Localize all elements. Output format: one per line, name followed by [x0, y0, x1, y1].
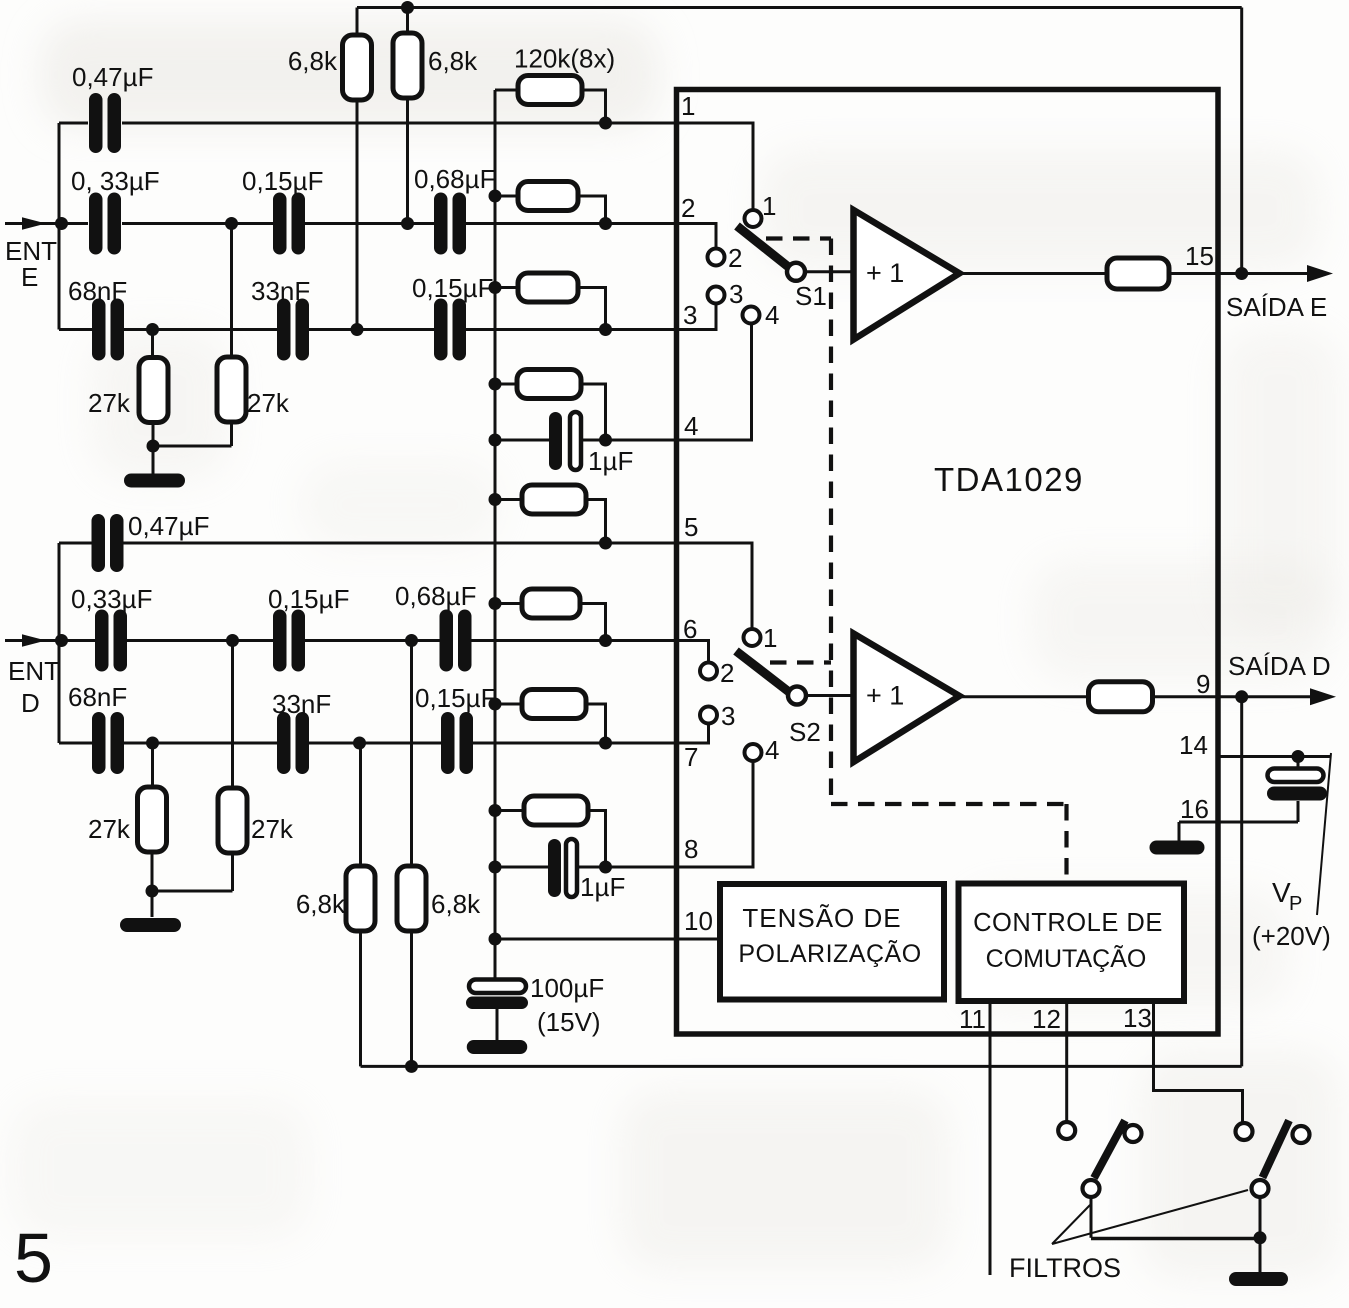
svg-text:0,15µF: 0,15µF — [242, 166, 323, 196]
wire pin-7 to S2 contact 3 — [677, 725, 709, 744]
label 100uF — [530, 973, 604, 1003]
resistor 120k row8 — [489, 796, 606, 867]
svg-text:5: 5 — [14, 1219, 53, 1297]
svg-text:4: 4 — [765, 300, 779, 330]
figure number 5 — [14, 1219, 53, 1297]
wire op-amp E output — [958, 272, 1107, 275]
svg-text:12: 12 — [1032, 1004, 1061, 1034]
wire left vertical E (pin1 to pin3) — [58, 123, 61, 330]
S1 contact 3 label — [729, 279, 743, 309]
svg-text:(15V): (15V) — [537, 1007, 601, 1037]
S2 contact 4 label — [765, 735, 779, 765]
svg-text:1: 1 — [681, 91, 695, 121]
dashed control bus vertical — [829, 239, 833, 805]
S2 contact 1 — [744, 629, 761, 646]
label ENT E — [5, 236, 57, 292]
node SAIDA E junction — [1235, 267, 1248, 280]
pin label 9 — [1196, 669, 1210, 699]
node 6,8k/pin3 junction — [351, 323, 364, 336]
label 0,15uF (D second) — [415, 683, 496, 713]
wire ground stem E — [152, 446, 155, 474]
pin label 15 — [1185, 241, 1214, 271]
node ENT D junction — [55, 634, 68, 647]
wire pin-12 — [1065, 1001, 1068, 1122]
label 6,8k (top left) — [288, 46, 338, 76]
svg-text:100µF: 100µF — [530, 973, 604, 1003]
svg-text:0,15µF: 0,15µF — [268, 584, 349, 614]
filter switch left pivot — [1083, 1180, 1100, 1197]
node ground junction E — [147, 440, 160, 453]
svg-text:7: 7 — [684, 742, 698, 772]
wire 6,8k R3 bottom lead — [356, 100, 359, 330]
capacitor 68nF (E) — [92, 299, 124, 361]
wire pin-1 to S1 contact 1 — [677, 123, 754, 210]
wire pin-9 to SAIDA D — [1153, 695, 1311, 698]
pin label 16 — [1180, 794, 1209, 824]
node 6,8k/pin7 junction D — [353, 737, 366, 750]
svg-text:11: 11 — [959, 1004, 986, 1034]
label TDA1029 — [934, 461, 1084, 498]
capacitor 0,47uF (E) — [89, 93, 121, 153]
S1 contact 2 label — [728, 243, 742, 273]
dashed control bus horizontal — [831, 802, 1067, 806]
svg-text:4: 4 — [684, 411, 698, 441]
svg-text:4: 4 — [765, 735, 779, 765]
capacitor 0,33uF (D) — [95, 610, 127, 672]
label 68nF (D) — [68, 682, 127, 712]
S1 blade — [737, 226, 791, 269]
resistor 27k (D right) — [218, 788, 247, 853]
label 33nF (D) — [272, 689, 331, 719]
wire 27k bottoms to ground E — [153, 420, 232, 446]
S1 contact 4 — [743, 307, 760, 324]
ENT E input arrow — [22, 217, 46, 229]
S1 contact 4 label — [765, 300, 779, 330]
capacitor 0,68uF (D) — [440, 610, 472, 672]
wire S1 common to op-amp — [805, 270, 853, 273]
svg-text:0,15µF: 0,15µF — [412, 273, 493, 303]
S1 contact 1 — [745, 210, 762, 227]
svg-text:2: 2 — [720, 658, 734, 688]
wire 6,8k R4 top lead — [406, 8, 409, 34]
node filter ground junction — [1254, 1231, 1267, 1244]
label (+20V) — [1252, 921, 1331, 951]
wire pin-16 ground stem — [1178, 822, 1181, 841]
capacitor 0,33uF (E) — [89, 193, 121, 255]
node SAIDA D junction — [1235, 690, 1248, 703]
svg-text:6,8k: 6,8k — [288, 46, 338, 76]
capacitor 33nF (E) — [277, 299, 309, 361]
svg-text:13: 13 — [1123, 1003, 1152, 1033]
wire 27k R5D top lead — [151, 743, 154, 787]
resistor output D (pin 9) — [1089, 682, 1153, 712]
node 6,8k/pin2 junction — [401, 217, 414, 230]
label S1 — [795, 281, 827, 311]
label 27k (E left) — [88, 388, 131, 418]
pin label 6 — [683, 614, 697, 644]
resistor 120k row1 — [495, 76, 606, 124]
node row2/pin junction — [599, 217, 612, 230]
node 68nF/27k junction E — [146, 323, 159, 336]
wire S2 common to op-amp — [806, 694, 853, 697]
wire ground stem D — [151, 891, 154, 917]
pin label 3 — [683, 300, 697, 330]
svg-text:0,33µF: 0,33µF — [71, 584, 152, 614]
node 6,8k/pin6 junction D — [405, 634, 418, 647]
capacitor 0,15uF (D second) — [441, 712, 473, 774]
S2 contact 1 label — [763, 623, 777, 653]
wire pin-2 net (ENT E line, y=223.5) — [122, 222, 677, 225]
svg-text:1µF: 1µF — [588, 446, 633, 476]
S1 common contact — [787, 263, 805, 281]
wire pin-4 to S1 contact 4 — [677, 325, 752, 441]
label 33nF (E) — [251, 276, 310, 306]
svg-text:14: 14 — [1179, 730, 1208, 760]
label 27k (D left) — [88, 814, 131, 844]
node 68nF/27k junction D — [146, 737, 159, 750]
svg-text:TDA1029: TDA1029 — [934, 461, 1084, 498]
wire pin-8 to S2 contact 4 — [677, 762, 754, 867]
pin label 10 — [684, 906, 713, 936]
svg-text:(+20V): (+20V) — [1252, 921, 1331, 951]
svg-text:0,15µF: 0,15µF — [415, 683, 496, 713]
label 6,8k (bottom left) — [296, 889, 346, 919]
wire pin-10 net (y=939) — [495, 938, 720, 941]
node row8/pin junction — [599, 861, 612, 874]
wire 27k bottoms to ground D — [152, 852, 233, 891]
svg-text:0,68µF: 0,68µF — [414, 164, 495, 194]
node 33uF/27k junction E — [225, 217, 238, 230]
resistor 120k row4 — [489, 370, 606, 441]
wire filter common — [1091, 1237, 1260, 1241]
capacitor 1uF (E, polarized) — [549, 412, 581, 470]
svg-text:CONTROLE DE: CONTROLE DE — [973, 909, 1163, 937]
resistor output E (pin 15) — [1107, 258, 1169, 289]
S2 blade — [736, 651, 791, 694]
pin label 5 — [684, 512, 698, 542]
svg-text:S1: S1 — [795, 281, 827, 311]
label SAIDA E — [1226, 292, 1327, 322]
label S2 — [789, 717, 821, 747]
S1 contact 1 label — [762, 191, 776, 221]
node row1/pin junction — [599, 117, 612, 130]
ground symbol E — [124, 474, 185, 488]
wire 6,8k R7 bottom lead — [359, 931, 362, 1066]
pin label 1 — [681, 91, 695, 121]
label 0,15uF (D first) — [268, 584, 349, 614]
capacitor 0,15uF (D first) — [273, 610, 305, 672]
svg-text:3: 3 — [729, 279, 743, 309]
node ENT E junction — [55, 217, 68, 230]
svg-text:27k: 27k — [247, 388, 290, 418]
Vp pointer line — [1317, 753, 1331, 915]
resistor 120k row7 — [489, 690, 606, 744]
label 1uF (E) — [588, 446, 633, 476]
svg-text:POLARIZAÇÃO: POLARIZAÇÃO — [738, 939, 921, 968]
svg-text:68nF: 68nF — [68, 276, 127, 306]
node row5/pin junction — [599, 537, 612, 550]
dashed control link S1 — [766, 236, 831, 240]
pin label 11 — [959, 1004, 986, 1034]
label 1uF (D) — [580, 872, 625, 902]
label 0,68uF (D) — [395, 581, 476, 611]
wire 27k R1E top lead — [151, 330, 154, 361]
resistor 6,8k (bottom right) — [397, 866, 426, 931]
label ENT D — [8, 656, 60, 718]
wire ladder bus vertical — [494, 90, 497, 980]
wire pin-11 — [989, 1001, 992, 1275]
ground symbol 100uF — [467, 1040, 528, 1054]
S2 common contact — [788, 687, 806, 705]
wire ENT D input lead — [5, 639, 96, 642]
node ground junction D — [146, 885, 159, 898]
wire filter ground stem — [1259, 1238, 1262, 1272]
svg-text:10: 10 — [684, 906, 713, 936]
capacitor 1uF (D, polarized) — [548, 839, 577, 897]
svg-text:9: 9 — [1196, 669, 1210, 699]
resistor 120k row3 — [489, 273, 606, 330]
svg-text:1: 1 — [762, 191, 776, 221]
resistor 27k (E right) — [217, 357, 246, 422]
capacitor 0,15uF (E first) — [273, 193, 305, 255]
wire 6,8k R8 top lead — [410, 641, 413, 867]
label 0,33uF (E) — [71, 166, 160, 196]
label SAIDA D — [1228, 651, 1331, 681]
wire op-amp D output — [958, 695, 1089, 698]
svg-text:3: 3 — [721, 701, 735, 731]
svg-text:P: P — [1289, 893, 1302, 915]
label FILTROS — [1009, 1253, 1121, 1283]
svg-text:0,47µF: 0,47µF — [72, 62, 153, 92]
svg-text:SAÍDA D: SAÍDA D — [1228, 651, 1331, 681]
resistor 120k row5 — [489, 485, 606, 543]
svg-text:TENSÃO DE: TENSÃO DE — [742, 903, 901, 933]
svg-text:+ 1: + 1 — [866, 258, 904, 288]
wire pin-5 net (0,47uF D line, y=543) — [59, 542, 677, 545]
ENT D input arrow — [22, 634, 46, 646]
wire bottom feedback rail — [361, 1065, 1242, 1068]
wire pin-1 net (0,47uF line, y=123) — [59, 122, 677, 125]
label Vp — [1272, 877, 1302, 915]
svg-text:1µF: 1µF — [580, 872, 625, 902]
svg-text:5: 5 — [684, 512, 698, 542]
svg-text:27k: 27k — [251, 814, 294, 844]
S2 contact 3 label — [721, 701, 735, 731]
svg-text:0, 33µF: 0, 33µF — [71, 166, 160, 196]
wire right feedback vertical (SAIDA D) — [1240, 697, 1243, 1067]
svg-text:COMUTAÇÃO: COMUTAÇÃO — [986, 944, 1147, 973]
FILTROS pointer lines — [1052, 1190, 1248, 1244]
label 0,33uF (D) — [71, 584, 152, 614]
pin label 8 — [684, 834, 698, 864]
wire cap bottom lead — [1297, 801, 1300, 822]
op-amp buffer +1 (D) — [854, 634, 960, 763]
resistor 6,8k (bottom left) — [346, 866, 375, 931]
S2 contact 3 — [700, 707, 717, 724]
wire 100uF ground stem — [496, 1009, 499, 1040]
wire pin-16 net — [1179, 821, 1298, 824]
node top line junction — [401, 1, 414, 14]
pin label 14 — [1179, 730, 1208, 760]
ground symbol filters — [1229, 1272, 1288, 1286]
label 68nF (E) — [68, 276, 127, 306]
filter contact pin-13 — [1236, 1123, 1253, 1140]
label 120k(8x) — [514, 44, 615, 74]
label 0,15uF (E first) — [242, 166, 323, 196]
wire pin-6 net (ENT D line, y=640.5) — [126, 639, 677, 642]
dashed control link S2 — [770, 660, 831, 664]
filter switch left open contact — [1125, 1125, 1142, 1142]
node pin-8 bus junction — [489, 861, 502, 874]
node row3/pin junction — [599, 323, 612, 336]
wire 6,8k R8 bottom lead — [410, 931, 413, 1066]
S2 contact 4 — [745, 744, 762, 761]
wire pin-15 to SAIDA E — [1169, 272, 1309, 275]
svg-text:27k: 27k — [88, 814, 131, 844]
SAIDA D output arrow — [1310, 688, 1336, 705]
capacitor 100uF electrolytic — [466, 980, 528, 1010]
pin label 2 — [681, 193, 695, 223]
svg-text:0,47µF: 0,47µF — [128, 511, 209, 541]
wire left vertical D (pin5 to pin7) — [58, 543, 61, 743]
svg-text:+ 1: + 1 — [866, 681, 904, 711]
svg-text:D: D — [21, 688, 40, 718]
wire 6,8k R3 top lead — [356, 8, 359, 36]
svg-text:16: 16 — [1180, 794, 1209, 824]
wire pin-3 to S1 contact 3 — [677, 305, 717, 330]
label 6,8k (top right) — [428, 46, 478, 76]
wire 6,8k R4 bottom lead — [406, 98, 409, 224]
S2 contact 2 — [700, 663, 717, 680]
wire 27k R6D top lead — [231, 641, 234, 790]
wire pin-7 net (68nF D line, y=743) — [59, 742, 677, 745]
dashed control bus to comutacao box — [1064, 804, 1068, 882]
label (15V) — [537, 1007, 601, 1037]
filter switch right top contact — [1293, 1126, 1310, 1143]
svg-text:6,8k: 6,8k — [296, 889, 346, 919]
node 33uF/27k junction D — [226, 634, 239, 647]
svg-text:33nF: 33nF — [272, 689, 331, 719]
svg-text:FILTROS: FILTROS — [1009, 1253, 1121, 1283]
label 27k (E right) — [247, 388, 290, 418]
svg-text:27k: 27k — [88, 388, 131, 418]
pin label 13 — [1123, 1003, 1152, 1033]
node pin-10 bus junction — [489, 933, 502, 946]
wire pin-5 to S2 contact 1 — [677, 543, 753, 629]
S1 contact 2 — [708, 249, 725, 266]
label 0,68uF (E) — [414, 164, 495, 194]
SAIDA E output arrow — [1307, 265, 1333, 282]
pin label 12 — [1032, 1004, 1061, 1034]
pin label 4 — [684, 411, 698, 441]
IC U1 TDA1029 outline — [677, 90, 1219, 1035]
ground symbol D — [120, 918, 181, 932]
label 27k (D right) — [251, 814, 294, 844]
svg-text:1: 1 — [763, 623, 777, 653]
resistor 6,8k (top right) — [393, 33, 422, 98]
wire top feedback line (y=7.5) — [357, 6, 1242, 9]
capacitor 0,68uF (E) — [434, 193, 466, 255]
svg-text:2: 2 — [681, 193, 695, 223]
wire pin-3 net (68nF line, y=329.5) — [59, 328, 677, 331]
svg-text:6,8k: 6,8k — [428, 46, 478, 76]
svg-text:8: 8 — [684, 834, 698, 864]
node pin-14 cap junction — [1292, 750, 1305, 763]
label 0,47uF (E) — [72, 62, 153, 92]
capacitor Vp decoupling (electrolytic) — [1267, 769, 1327, 801]
block CONTROLE DE COMUTACAO — [959, 884, 1185, 1002]
node rail junction — [405, 1060, 418, 1073]
wire right feedback vertical (SAIDA E) — [1240, 8, 1243, 274]
svg-text:E: E — [21, 262, 38, 292]
ground symbol pin-16 — [1150, 841, 1205, 855]
filter switch right blade — [1263, 1121, 1290, 1178]
node pin-4 bus junction — [489, 434, 502, 447]
svg-text:68nF: 68nF — [68, 682, 127, 712]
resistor 27k (E left) — [139, 358, 168, 423]
wire pin-14 net — [1218, 755, 1330, 758]
svg-text:3: 3 — [683, 300, 697, 330]
svg-text:15: 15 — [1185, 241, 1214, 271]
capacitor 33nF (D) — [277, 712, 309, 774]
filter switch right pivot — [1252, 1180, 1269, 1197]
wire cap top lead — [1297, 757, 1300, 770]
capacitor 0,47uF (D) — [92, 514, 124, 572]
capacitor 68nF (D) — [92, 712, 124, 774]
capacitor 0,15uF (E second) — [434, 299, 466, 361]
wire filter left pivot down — [1090, 1198, 1093, 1238]
resistor 120k row6 — [489, 589, 606, 641]
svg-text:33nF: 33nF — [251, 276, 310, 306]
pin label 7 — [684, 742, 698, 772]
svg-text:120k(8x): 120k(8x) — [514, 44, 615, 74]
node row6/pin junction — [599, 634, 612, 647]
wire pin-8 net (y=867) — [495, 866, 677, 869]
op-amp buffer +1 (E) — [854, 210, 960, 340]
wire pin-2 to S1 contact 2 — [677, 224, 717, 249]
svg-text:0,68µF: 0,68µF — [395, 581, 476, 611]
wire ENT E input lead — [5, 222, 88, 225]
label 0,47uF (D) — [128, 511, 209, 541]
node row4/pin junction — [599, 434, 612, 447]
S2 contact 2 label — [720, 658, 734, 688]
wire filter right pivot down — [1259, 1198, 1262, 1238]
wire 27k R2E top lead — [230, 224, 233, 358]
wire 6,8k R7 top lead — [359, 743, 362, 866]
label 0,15uF (E second) — [412, 273, 493, 303]
svg-text:2: 2 — [728, 243, 742, 273]
label 6,8k (bottom right) — [431, 889, 481, 919]
svg-text:S2: S2 — [789, 717, 821, 747]
wire pin-4 net (y=440) — [495, 439, 677, 442]
wire pin-6 to S2 contact 2 — [677, 641, 709, 663]
resistor 120k row2 — [489, 182, 606, 224]
node row7/pin junction — [599, 737, 612, 750]
block TENSAO DE POLARIZACAO — [720, 884, 944, 1000]
wire pin-13 — [1154, 1001, 1243, 1123]
S1 contact 3 — [708, 287, 725, 304]
filter contact pin-12 — [1058, 1122, 1075, 1139]
svg-text:6,8k: 6,8k — [431, 889, 481, 919]
resistor 6,8k (top left) — [343, 35, 372, 100]
filter switch left blade — [1094, 1121, 1125, 1179]
svg-text:SAÍDA E: SAÍDA E — [1226, 292, 1327, 322]
svg-text:ENT: ENT — [8, 656, 60, 686]
resistor 27k (D left) — [138, 787, 167, 852]
